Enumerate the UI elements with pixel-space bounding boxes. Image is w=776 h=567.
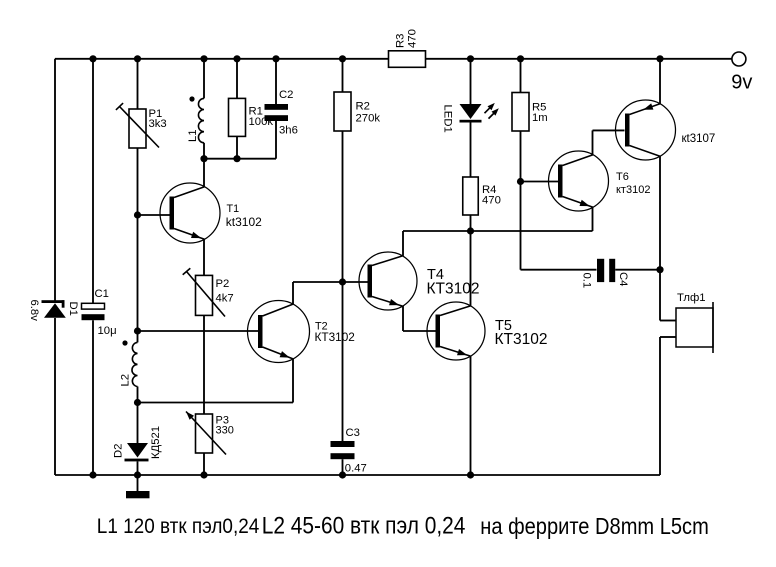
label C3 [346,427,360,439]
ground [126,491,150,498]
wire left rail lower [54,318,56,475]
svg-text:КТ3102: КТ3102 [495,331,548,348]
label 470 R4 [482,195,501,207]
LED LED1 [460,104,482,123]
diode D2 [125,443,149,461]
resistor R4 [463,177,479,215]
wire T6 emitter [592,207,594,231]
label 100k [249,116,274,128]
label R4 [482,184,496,196]
wire P2 bottom to P3 top [203,315,205,414]
node T1 base junction [134,211,141,218]
resistor R3 [389,51,426,68]
caption L2 [262,512,466,539]
wire C2 bottom [275,121,277,159]
label 9v [731,71,752,93]
wire C3 bottom [342,459,344,475]
node top rail / LED [467,55,474,62]
svg-text:L2 45-60 втк пэл 0,24: L2 45-60 втк пэл 0,24 [262,512,466,539]
wire phone lower stub [660,337,676,475]
wire to C4 [521,269,597,271]
svg-text:LED1: LED1 [442,105,454,133]
wire C1 bottom [92,320,94,475]
node top rail / R1 [233,55,240,62]
node L2 bottom [134,399,141,406]
wire R5 top [520,59,522,93]
label T2 [315,321,328,333]
svg-text:R3: R3 [395,34,407,48]
wire T7 emitter [659,59,661,104]
phase dot L1 [189,96,194,101]
node T4 base junction [339,278,346,285]
svg-text:0.1: 0.1 [581,273,593,289]
wire R1 bottom [236,136,238,158]
wire left rail upper [54,59,56,301]
svg-text:3h6: 3h6 [279,125,298,137]
wire R5 junction down [520,182,522,270]
caption ferrite [480,513,709,539]
svg-text:330: 330 [216,425,234,437]
wire T2 collector [293,282,371,304]
transistor T4 [359,252,417,310]
svg-text:D1: D1 [67,302,79,316]
wire L2 top stub [137,331,139,342]
wire C2 top [275,59,277,104]
node C4 / T7 collector junction [656,266,663,273]
label 3h6 [279,125,298,137]
transistor T2 [248,301,310,363]
label T6 [616,171,629,183]
svg-text:C3: C3 [346,427,360,439]
wire C1 top [92,59,94,303]
wire R1 top [236,59,238,99]
wire D2 bottom [137,461,139,475]
zener D1 [42,300,66,318]
label D2 [113,444,125,458]
svg-text:T1: T1 [227,203,240,215]
label L1 [187,129,199,142]
label Tlf1 [677,292,706,304]
node L2 top [134,327,141,334]
transistor T5 [427,302,485,360]
label 10u [98,325,117,337]
wire T2 emitter [292,359,294,403]
wire R5 bottom [520,131,522,182]
node bottom rail / ground [134,471,141,478]
svg-text:D2: D2 [113,444,125,458]
transistor T1 [160,183,220,243]
label kt3107 [682,133,716,145]
svg-text:кт3102: кт3102 [616,184,650,196]
svg-text:КД521: КД521 [150,426,162,459]
label KT3102 T5 [495,331,548,348]
svg-text:270k: 270k [356,113,381,125]
wire ground stem [137,475,139,491]
wire R4 bottom [470,215,472,231]
wire T5 emitter [470,356,472,475]
svg-text:470: 470 [482,195,501,207]
svg-text:КТ3102: КТ3102 [427,281,480,298]
svg-text:9v: 9v [731,71,752,93]
wire bottom ground rail [55,474,660,476]
wire T1 collector [203,159,205,187]
potentiometer P1 [116,103,159,148]
wire T2 base [138,330,259,332]
label KT3102 T4 [427,281,480,298]
label R1 [249,106,263,118]
node top rail / C2 [272,55,279,62]
wire P1 top [137,59,139,109]
label kt3102 T6 [616,184,650,196]
label C4 [617,272,629,286]
LED arrows [485,103,499,119]
wire T1 emitter to P2 [203,239,205,275]
inductor L2 [132,342,138,386]
phase dot L2 [122,340,127,345]
wire R2 bottom to C3 [342,131,344,441]
svg-text:10μ: 10μ [98,325,117,337]
svg-text:3k3: 3k3 [149,118,167,130]
svg-text:L2: L2 [119,374,131,387]
node bottom rail / C3 [339,471,346,478]
label P2 [216,278,230,290]
node tank bottom / R1 [233,155,240,162]
transistor T6 [549,151,609,211]
node tank bottom / T1 collector [200,155,207,162]
resistor R2 [334,92,351,131]
label R5 [532,102,546,114]
wire T5 collector [470,231,472,306]
capacitor C1 [82,303,105,320]
svg-text:6.8v: 6.8v [28,300,40,322]
node bottom rail / P3 [200,471,207,478]
wire T6 base [521,181,559,183]
terminal +9v [732,52,746,66]
wire T4 collector to T6 emitter [471,230,593,232]
wire L2 to T2 emitter bus [138,402,294,404]
wire T4 emitter [403,306,437,331]
svg-text:на феррите D8mm L5cm: на феррите D8mm L5cm [480,513,709,539]
svg-text:470: 470 [407,29,419,48]
label T5 [495,318,512,334]
svg-text:кt3107: кt3107 [682,133,716,145]
wire phone upper stub [660,270,676,321]
transistor T7 kt3107 [616,100,676,160]
node bottom rail / C1 [89,471,96,478]
caption L1 [97,514,260,538]
svg-text:L1 120 втк пэл0,24: L1 120 втк пэл0,24 [97,514,260,538]
wire L1 top [203,59,205,99]
wire LED to R4 [470,123,472,178]
label 270k [356,113,381,125]
node top rail / P1 branch [134,55,141,62]
label T4 [427,267,444,283]
svg-text:4k7: 4k7 [216,293,234,305]
inductor L1 [198,98,204,142]
wire T1 base [138,214,170,216]
label 6.8v [28,300,40,322]
label KT3102 T2 [315,330,355,344]
wire P3 bottom [203,453,205,475]
wire P1 bottom to L2 [137,148,139,331]
label 4k7 [216,293,234,305]
label LED1 [442,105,454,133]
wire top power rail [55,58,732,60]
node T6 base junction [517,178,524,185]
wire L2 bottom stub [137,387,139,403]
svg-text:L1: L1 [187,129,199,142]
label 470 R3 [407,29,419,48]
capacitor C4 [597,259,615,282]
label D1 [67,302,79,316]
label 0.47 [345,462,367,474]
resistor R1 [229,98,246,136]
resistor R5 [512,93,529,132]
node top rail / R5 [517,55,524,62]
node top rail / L1 [200,55,207,62]
svg-text:P2: P2 [216,278,230,290]
svg-text:Тлф1: Тлф1 [677,292,706,304]
label 1m [532,112,548,124]
label C2 [279,89,293,101]
telephone Tlf1 [676,302,713,353]
label kt3102 T1 [226,215,262,229]
node bottom rail / T5 emitter [467,471,474,478]
wire T4 collector [403,231,471,256]
wire tank bottom [204,158,276,160]
wire R2 top [342,59,344,92]
label 3k3 [149,118,167,130]
label R3 [395,34,407,48]
wire T6 collector [593,130,625,154]
wire L2 bottom to D2 [137,403,139,444]
svg-text:1m: 1m [532,112,548,124]
potentiometer P3 [186,412,226,455]
svg-text:C1: C1 [95,288,109,300]
label R2 [356,101,370,113]
label P3 [216,415,229,427]
wire C4 right [615,269,660,271]
label L2 [119,374,131,387]
label 330 [216,425,234,437]
node top rail / T7 emitter [656,55,663,62]
node top rail / C1 branch [89,55,96,62]
label 0.1 [581,273,593,289]
svg-text:T6: T6 [616,171,629,183]
potentiometer P2 [183,268,225,316]
capacitor C3 [331,441,355,459]
label C1 [95,288,109,300]
node T4 collector junction [467,227,474,234]
label P1 [149,108,163,120]
wire LED top [470,59,472,104]
wire T7 collector [659,156,661,269]
svg-text:КТ3102: КТ3102 [315,330,355,344]
svg-text:R2: R2 [356,101,370,113]
label KD521 [150,426,162,459]
capacitor C2 [265,104,289,121]
svg-text:kt3102: kt3102 [226,215,262,229]
svg-text:0.47: 0.47 [345,462,367,474]
wire L1 bottom [203,143,205,159]
label T1 [227,203,240,215]
svg-text:C2: C2 [279,89,293,101]
svg-text:C4: C4 [617,272,629,286]
node top rail / R2 [339,55,346,62]
